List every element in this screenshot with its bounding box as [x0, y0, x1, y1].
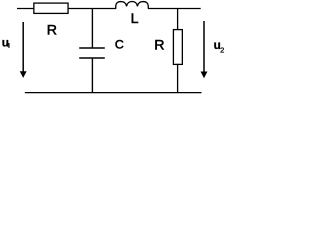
wire from R2 bottom to bottom rail — [177, 64, 179, 93]
wire top-left lead — [17, 8, 34, 10]
capacitor C top plate — [79, 47, 105, 49]
wire bottom rail — [25, 92, 202, 94]
voltage arrow u2 shaft — [203, 21, 205, 72]
svg-text:u: u — [2, 36, 9, 50]
svg-text:C: C — [115, 38, 124, 52]
voltage arrow u1 shaft — [22, 22, 24, 72]
svg-text:2: 2 — [220, 46, 224, 55]
inductor L coil — [116, 2, 149, 9]
wire from node A to inductor — [92, 8, 116, 10]
svg-text:R: R — [47, 23, 57, 39]
resistor R2 body (vertical) — [173, 30, 182, 65]
resistor R1 body — [34, 3, 68, 13]
voltage arrow u2 head — [201, 72, 208, 79]
capacitor C bottom plate — [79, 57, 105, 59]
wire from inductor to top-right corner — [148, 8, 201, 10]
voltage arrow u1 head — [20, 71, 27, 78]
wire from R1 to node A — [68, 8, 92, 10]
capacitor C bottom stem — [91, 59, 93, 93]
svg-text:R: R — [154, 37, 164, 53]
svg-text:L: L — [131, 11, 139, 27]
wire branch down to resistor R2 — [177, 9, 179, 30]
capacitor C top stem — [91, 9, 93, 48]
